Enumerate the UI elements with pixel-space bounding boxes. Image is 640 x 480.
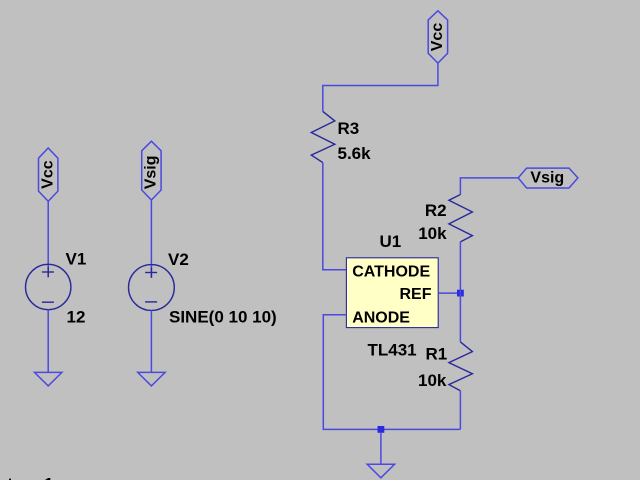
- net flag Vcc (top of R3 branch): [428, 11, 447, 63]
- voltage source V2: [129, 265, 175, 311]
- svg-text:U1: U1: [380, 232, 402, 251]
- wire (Vsig flag to V2 +): [150, 200, 152, 278]
- wire (Vsig flag to R2 top, L-shape): [460, 178, 518, 195]
- voltage source V1: [26, 264, 71, 309]
- svg-text:10k: 10k: [418, 224, 447, 243]
- net flag Vcc (above V1): [39, 148, 58, 201]
- svg-text:V2: V2: [168, 250, 189, 269]
- svg-text:REF: REF: [400, 286, 432, 303]
- svg-text:CATHODE: CATHODE: [352, 264, 430, 281]
- svg-text:10k: 10k: [418, 371, 447, 390]
- wire (Vcc flag to R3 top, L-shape): [323, 63, 438, 111]
- wire (junction to ground): [380, 433, 382, 465]
- svg-text:ANODE: ANODE: [352, 309, 410, 326]
- wire (Vcc flag to V1 +): [47, 201, 49, 277]
- svg-text:SINE(0 10 10): SINE(0 10 10): [169, 308, 277, 327]
- net flag Vsig (right): [518, 168, 578, 188]
- wire (ANODE pin to bottom rail): [323, 315, 460, 430]
- svg-text:Vsig: Vsig: [143, 156, 160, 190]
- svg-text:R1: R1: [425, 345, 447, 364]
- svg-text:.tran 1: .tran 1: [3, 474, 54, 480]
- op-amp U1 body (TL431 box): [346, 258, 438, 328]
- wire (V2 - to ground): [150, 310, 152, 372]
- svg-text:Vcc: Vcc: [40, 160, 57, 189]
- junction node REF: [457, 290, 464, 297]
- svg-text:5.6k: 5.6k: [338, 144, 372, 163]
- resistor R2: [449, 195, 473, 242]
- wire (R3 bottom to CATHODE pin): [323, 163, 347, 270]
- svg-text:Vsig: Vsig: [530, 170, 564, 187]
- net flag Vsig (above V2): [142, 141, 161, 200]
- svg-text:TL431: TL431: [368, 340, 417, 359]
- wire (REF pin to junction): [438, 292, 460, 294]
- resistor R1: [449, 342, 473, 391]
- ground (below V2): [138, 372, 165, 386]
- wire (R2 bottom to junction): [459, 242, 461, 293]
- resistor R3: [311, 111, 335, 162]
- svg-text:Vcc: Vcc: [429, 23, 446, 52]
- ground (bottom): [367, 464, 394, 478]
- wire (junction to R1 top): [459, 293, 461, 342]
- svg-text:12: 12: [67, 307, 86, 326]
- svg-text:R3: R3: [338, 119, 360, 138]
- svg-text:R2: R2: [425, 201, 447, 220]
- ground (below V1): [35, 372, 62, 386]
- svg-text:V1: V1: [66, 249, 87, 268]
- wire (R1 bottom to bottom rail): [459, 391, 461, 430]
- junction node (bottom rail / ground tap): [378, 426, 385, 433]
- wire (V1 - to ground): [47, 310, 49, 373]
